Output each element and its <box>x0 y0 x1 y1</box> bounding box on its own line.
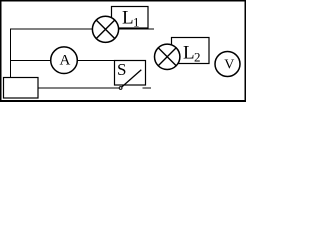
wire: left riser <box>10 29 12 78</box>
wire: top run to L1 <box>10 28 93 30</box>
battery box <box>4 78 39 99</box>
wire: L1 to right end <box>118 28 154 30</box>
svg-text:1: 1 <box>133 15 140 30</box>
voltmeter V <box>215 52 240 77</box>
svg-text:L: L <box>183 43 195 64</box>
svg-text:V: V <box>224 57 234 72</box>
lamp L1 <box>92 16 118 42</box>
svg-text:L: L <box>122 8 134 29</box>
switch contact dot <box>119 87 122 90</box>
svg-text:A: A <box>60 53 71 69</box>
lamp L2 <box>155 44 180 69</box>
svg-text:2: 2 <box>194 50 201 65</box>
wire: A row right to S box <box>77 60 116 62</box>
wire: bottom stub right of switch <box>143 87 152 89</box>
wire: bottom run battery to switch <box>38 87 120 89</box>
wire: A row left <box>10 60 52 62</box>
label box L1 <box>112 7 149 29</box>
switch blade <box>121 70 141 88</box>
label box L2 <box>172 38 210 64</box>
svg-text:S: S <box>117 60 126 79</box>
switch label box S <box>115 61 146 86</box>
ammeter A <box>51 47 78 74</box>
